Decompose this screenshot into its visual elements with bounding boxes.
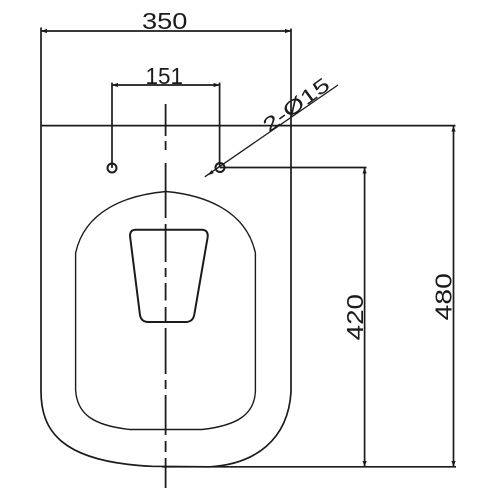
arrow 350 left bbox=[41, 29, 47, 33]
arrow leader bbox=[207, 170, 214, 176]
arrow 420 bottom bbox=[363, 461, 367, 467]
arrow 480 top bbox=[451, 126, 455, 132]
dimension line 350 bbox=[41, 30, 291, 32]
mounting hole left bbox=[108, 164, 117, 173]
leader line 2-d15 bbox=[205, 85, 338, 177]
mounting hole right bbox=[216, 163, 225, 172]
bottom extension line bbox=[162, 466, 456, 468]
outer body outline bbox=[41, 28, 291, 467]
svg-text:420: 420 bbox=[342, 294, 368, 340]
svg-text:151: 151 bbox=[146, 63, 184, 89]
extension line hole right bbox=[219, 83, 221, 168]
arrow 350 right bbox=[285, 29, 291, 33]
extension line holes to 420 bbox=[220, 167, 367, 169]
arrow 151 left bbox=[112, 83, 118, 87]
extension line hole left bbox=[111, 83, 113, 169]
svg-text:480: 480 bbox=[431, 273, 457, 320]
water spot trapezoid bbox=[130, 230, 208, 322]
svg-text:350: 350 bbox=[142, 8, 187, 34]
arrow 151 right bbox=[214, 83, 220, 87]
dimension line 480 bbox=[453, 126, 455, 467]
dimension line 151 bbox=[112, 84, 220, 86]
arrow 480 bottom bbox=[451, 461, 455, 467]
arrow 420 top bbox=[363, 168, 367, 174]
center line (dashed) bbox=[165, 104, 167, 488]
dimension line 420 bbox=[364, 168, 366, 468]
back feature line across body bbox=[41, 125, 456, 127]
seat opening inner outline bbox=[76, 192, 256, 430]
